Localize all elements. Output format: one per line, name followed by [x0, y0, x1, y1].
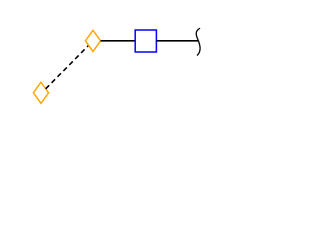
squiggle terminator (continuation mark)	[196, 28, 200, 55]
wire: solid edge D2 to S1	[101, 40, 136, 42]
wire: dashed edge D1 to D2	[46, 46, 89, 89]
node D1: lower orange diamond	[33, 82, 48, 103]
node S1: blue square	[135, 30, 156, 52]
node D2: upper orange diamond	[85, 30, 100, 51]
wire: solid edge S1 to squiggle terminator	[156, 40, 198, 42]
